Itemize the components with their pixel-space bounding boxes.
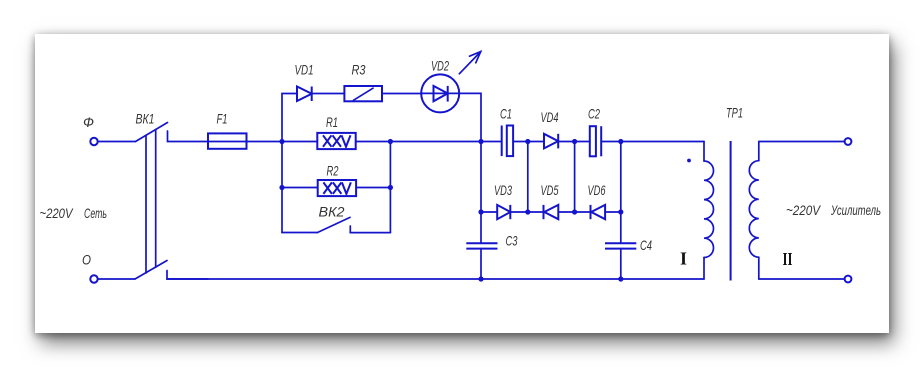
wire: top branch left segment <box>282 93 297 95</box>
BK2 blade <box>318 217 351 232</box>
diode VD4 <box>544 134 558 149</box>
resistor R3 (with diagonal) <box>344 86 382 101</box>
svg-text:~220V: ~220V <box>40 205 74 221</box>
wire: О to BK1 bottom pole <box>98 278 135 280</box>
TP1 core <box>730 141 732 281</box>
svg-text:F1: F1 <box>217 111 228 127</box>
junction (620.8,212) <box>618 209 623 214</box>
wire: C1 to node D <box>513 141 544 143</box>
BK1 bottom blade <box>135 261 167 280</box>
BK1 mechanical link lines <box>145 135 147 273</box>
indicator lamp VD2 (LED) <box>421 52 481 113</box>
svg-text:Сеть: Сеть <box>84 205 107 221</box>
svg-text:Усилитель: Усилитель <box>830 202 881 218</box>
svg-text:C2: C2 <box>588 106 600 122</box>
wire: R3 to VD2 <box>382 93 421 95</box>
junction node B2 (390.4,187.5) <box>388 185 393 190</box>
output terminal top <box>845 138 852 145</box>
resistor R1 <box>317 133 355 149</box>
diode VD6 (points left) <box>591 205 606 219</box>
junction (620.8,279) <box>618 276 623 281</box>
svg-text:О: О <box>82 252 91 268</box>
output terminal bottom <box>845 276 852 283</box>
wire: Ф to BK1 top pole <box>98 141 136 143</box>
BK1 top contact hook <box>168 131 209 142</box>
wire: left branch vertical (node A up to top branch, down to BK2 row) <box>281 94 283 233</box>
junction node D (527.8,141.5) <box>525 139 530 144</box>
fuse F1 <box>208 133 247 148</box>
wire: R2 row left segment <box>282 187 318 189</box>
svg-text:ВК2: ВК2 <box>319 204 345 220</box>
svg-text:C4: C4 <box>640 237 652 253</box>
wire: node C to C1 left plate <box>481 141 502 143</box>
svg-text:R3: R3 <box>352 62 366 78</box>
terminal О (neutral input) <box>90 275 97 282</box>
VD2 light arrow <box>459 52 480 74</box>
junction node A (282,141.5) <box>279 139 284 144</box>
capacitor C2 (polarized) <box>590 126 601 156</box>
svg-text:Ф: Ф <box>83 114 94 130</box>
junction node C (481,141.5) <box>478 139 483 144</box>
wire: secondary top to output terminal <box>759 141 845 143</box>
svg-text:ВК1: ВК1 <box>136 110 155 126</box>
junction node B (390.4,141.5) <box>388 139 393 144</box>
diode VD1 <box>297 87 312 102</box>
wire: VD3 row left segment <box>481 211 497 213</box>
TP1 polarity dot <box>687 159 691 163</box>
junction (481,212) <box>478 209 483 214</box>
svg-text:ТР1: ТР1 <box>726 104 743 120</box>
BK1 top blade <box>136 123 168 142</box>
svg-text:R2: R2 <box>327 163 339 179</box>
svg-text:VD3: VD3 <box>494 182 512 198</box>
wire: R1 to node B <box>356 141 481 143</box>
svg-text:I: I <box>680 249 687 269</box>
wire: VD1 to R3 <box>312 93 345 95</box>
wire: right branch vertical of R1/R2/BK2 group <box>389 142 391 233</box>
junction (481,279) <box>478 276 483 281</box>
junction (527.8,212) <box>525 209 530 214</box>
wire: C2 to transformer primary top <box>601 141 704 143</box>
transformer TP1 secondary winding II <box>749 142 759 280</box>
wire: vertical node D down to VD3/VD5 junction <box>527 142 529 213</box>
wire: VD4 to C2 <box>558 141 590 143</box>
switch BK2 <box>282 217 390 232</box>
svg-text:C3: C3 <box>506 233 518 249</box>
wire: vertical node F down through VD6 to C4 <box>620 142 622 244</box>
wire: VD2 to right branch corner and down <box>459 93 481 141</box>
capacitor C1 (polarized) <box>502 126 513 157</box>
BK2 contact hook <box>350 226 390 233</box>
junction (574.6,212) <box>572 209 577 214</box>
svg-text:VD4: VD4 <box>541 109 559 125</box>
wire: R2 to right branch <box>356 187 390 189</box>
wire: VD6 to node F vertical <box>605 211 621 213</box>
switch BK1 (double pole) <box>98 123 208 280</box>
diode VD5 (points left) <box>544 205 559 219</box>
svg-text:R1: R1 <box>326 114 338 130</box>
wire: bottom rail <box>167 278 704 280</box>
R1 XXV marks <box>323 135 351 147</box>
svg-text:VD1: VD1 <box>295 62 314 78</box>
svg-text:~220V: ~220V <box>786 202 821 218</box>
junction node E (574.6,141.5) <box>572 139 577 144</box>
capacitor C3 <box>466 243 497 279</box>
wire: secondary bottom to output terminal <box>759 278 845 280</box>
wire: VD5 to VD6 <box>558 211 590 213</box>
BK1 bottom contact hook <box>167 271 208 280</box>
capacitor C4 <box>605 243 636 279</box>
svg-text:VD6: VD6 <box>588 182 606 198</box>
wire: vertical node C down through VD3 row to C3 <box>480 142 482 244</box>
wire: VD3 to VD5 <box>510 211 543 213</box>
diode VD3 <box>497 205 510 219</box>
resistor R2 <box>318 180 356 196</box>
svg-text:VD5: VD5 <box>541 182 559 198</box>
transformer TP1 primary winding I <box>687 142 713 280</box>
junction node A2 (282,187.5) <box>279 185 284 190</box>
junction node F (620.8,141.5) <box>618 139 623 144</box>
wire: F1 to node A <box>247 141 318 143</box>
svg-text:II: II <box>783 249 793 269</box>
R2 XXV marks <box>323 182 351 194</box>
wire: BK2 row left segment <box>282 232 318 234</box>
terminal Ф (phase input) <box>90 138 97 145</box>
wire: vertical node E down to VD5/VD6 junction <box>574 142 576 213</box>
svg-text:C1: C1 <box>500 106 512 122</box>
svg-text:VD2: VD2 <box>431 58 449 74</box>
